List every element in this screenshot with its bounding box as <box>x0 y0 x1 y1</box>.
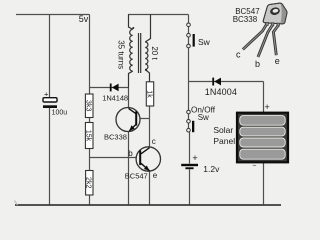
svg-text:BC338: BC338 <box>233 15 258 24</box>
svg-text:+: + <box>192 153 198 164</box>
svg-text:15k: 15k <box>85 130 92 142</box>
svg-text:−: − <box>252 163 256 170</box>
svg-text:1k: 1k <box>146 90 153 98</box>
svg-text:35 turns: 35 turns <box>117 40 126 69</box>
svg-text:b: b <box>255 59 260 69</box>
svg-text:3k3: 3k3 <box>85 100 92 111</box>
svg-text:1N4148: 1N4148 <box>102 93 128 102</box>
svg-text:100u: 100u <box>52 109 68 116</box>
svg-text:Sw: Sw <box>198 37 211 47</box>
svg-text:c: c <box>152 137 156 146</box>
svg-text:b: b <box>128 149 133 158</box>
svg-text:2k2: 2k2 <box>85 177 92 188</box>
svg-text:c: c <box>236 50 241 60</box>
svg-text:1.2v: 1.2v <box>203 164 220 174</box>
svg-text:e: e <box>153 171 158 180</box>
svg-text:BC547: BC547 <box>125 171 148 180</box>
svg-text:+: + <box>265 102 270 112</box>
svg-text:1N4004: 1N4004 <box>205 87 237 97</box>
svg-text:Panel: Panel <box>213 136 235 146</box>
svg-text:BC338: BC338 <box>104 132 127 141</box>
svg-text:e: e <box>275 56 280 66</box>
svg-text:5v: 5v <box>79 14 89 24</box>
svg-text:20 t: 20 t <box>150 46 159 60</box>
svg-text:+: + <box>44 89 49 98</box>
svg-text:Solar: Solar <box>213 125 233 135</box>
svg-text:Sw: Sw <box>198 113 209 122</box>
